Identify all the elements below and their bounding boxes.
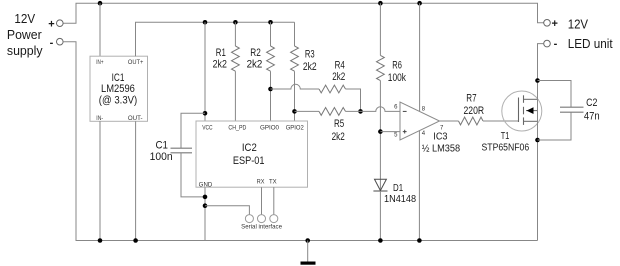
svg-text:(@ 3.3V): (@ 3.3V) <box>99 95 137 107</box>
svg-text:Power: Power <box>7 27 42 42</box>
wire op-amp output to R7 <box>440 120 459 122</box>
svg-text:LM2596: LM2596 <box>101 83 135 95</box>
T1 source stub <box>524 120 538 122</box>
label R6 100k <box>388 60 406 85</box>
diode D1 1N4148 <box>373 179 387 191</box>
svg-text:ESP-01: ESP-01 <box>233 155 265 167</box>
svg-text:2k2: 2k2 <box>332 131 345 143</box>
svg-text:2k2: 2k2 <box>247 59 263 71</box>
op-amp - input mark <box>403 110 407 112</box>
T1 body stub with arrow <box>526 110 538 112</box>
node junction C1 branch <box>203 111 208 116</box>
svg-text:47n: 47n <box>584 111 600 123</box>
wire C2 top lead <box>538 81 572 108</box>
label R1 2k2 <box>213 47 227 71</box>
node junction drain / C2 top <box>535 78 540 83</box>
node junction top bus op-amp V+ <box>417 1 422 6</box>
svg-text:C1: C1 <box>156 140 169 152</box>
resistor R5 <box>319 108 346 116</box>
label R7 220R <box>464 93 485 118</box>
svg-text:OUT+: OUT+ <box>128 60 144 66</box>
svg-text:100k: 100k <box>388 72 406 84</box>
node junction ground bus IN- <box>98 238 103 243</box>
terminal serial TX <box>270 215 278 223</box>
svg-text:IN-: IN- <box>96 116 103 122</box>
label 12V Power supply <box>7 11 43 58</box>
svg-text:½ LM358: ½ LM358 <box>422 143 461 154</box>
wire - LED terminal down to drain <box>538 44 544 241</box>
terminal - (LED unit) <box>544 40 551 47</box>
terminal serial gnd <box>245 215 253 223</box>
label D1 1N4148 <box>384 183 417 205</box>
IC2 ESP-01 box <box>196 121 308 188</box>
wire R4 right lead down to R5 junction <box>346 89 361 111</box>
svg-text:Serial interface: Serial interface <box>241 225 282 231</box>
svg-text:RX: RX <box>257 180 265 186</box>
resistor R1 <box>232 22 240 121</box>
terminal - (power supply) <box>57 38 64 45</box>
node junction top bus IN+ <box>98 1 103 6</box>
svg-text:R5: R5 <box>334 118 344 130</box>
svg-text:R4: R4 <box>335 59 345 71</box>
wire C2 bottom lead <box>538 112 572 140</box>
resistor R4 <box>319 85 346 93</box>
svg-text:IC2: IC2 <box>242 142 257 154</box>
label IC3 1/2 LM358 <box>422 131 461 154</box>
wire C1 top lead <box>181 113 205 148</box>
wire serial gnd branch <box>205 206 249 215</box>
wire OUT+ 3.3V rail <box>136 22 295 56</box>
svg-text:12V: 12V <box>14 11 35 26</box>
svg-text:C2: C2 <box>586 97 597 109</box>
svg-text:R1: R1 <box>216 47 226 59</box>
wire VCC drop <box>204 22 206 121</box>
svg-text:GND: GND <box>199 182 213 188</box>
terminal serial RX <box>258 215 266 223</box>
svg-text:R6: R6 <box>392 60 402 72</box>
label T1 STP65NF06 <box>482 131 530 154</box>
wire op-amp V+ (pin 8) <box>419 3 421 111</box>
svg-text:R7: R7 <box>466 93 476 105</box>
node junction ground bus op-amp pin4 <box>417 238 422 243</box>
svg-text:+: + <box>48 19 54 31</box>
node junction top bus R6 <box>378 1 383 6</box>
svg-text:IC1: IC1 <box>112 72 125 84</box>
label C1 100n <box>150 140 173 164</box>
T1 drain stub <box>524 98 538 100</box>
wire IN- to ground bus <box>99 121 101 240</box>
terminal + (LED unit) <box>544 20 551 27</box>
wire C1 bottom lead <box>181 153 205 197</box>
svg-text:D1: D1 <box>393 183 403 194</box>
svg-text:IN+: IN+ <box>96 60 104 66</box>
wire op-amp V- (pin 4) to ground bus <box>418 131 420 241</box>
node junction ground bus earth <box>305 238 310 243</box>
wire GND pin to ground bus <box>204 187 206 240</box>
node junction R2 / R4 branch <box>268 87 273 92</box>
node junction R6 / op-amp + input <box>378 129 383 134</box>
svg-text:GPIO2: GPIO2 <box>286 126 305 132</box>
wire D1 cathode to ground bus <box>379 191 381 241</box>
label R3 2k2 <box>303 49 317 73</box>
label C2 47n <box>584 97 600 123</box>
svg-text:2k2: 2k2 <box>303 61 317 73</box>
resistor R2 <box>267 22 275 121</box>
svg-text:LED unit: LED unit <box>568 36 613 51</box>
resistor R7 <box>459 117 484 125</box>
svg-text:220R: 220R <box>464 105 485 117</box>
wire top 12V bus <box>63 3 544 23</box>
node junction C1 return <box>203 195 208 200</box>
capacitor C2 <box>560 107 584 112</box>
node junction rail VCC <box>203 20 208 25</box>
svg-text:-: - <box>554 38 558 50</box>
svg-text:CH_PD: CH_PD <box>228 126 247 132</box>
svg-text:100n: 100n <box>150 151 173 163</box>
wire R5 left lead <box>295 110 320 112</box>
svg-text:-: - <box>50 37 54 49</box>
terminal + (power supply) <box>57 20 64 27</box>
svg-text:STP65NF06: STP65NF06 <box>482 143 530 154</box>
wire IN+ drop <box>99 3 101 56</box>
node junction serial gnd branch <box>203 203 208 208</box>
wire R4 left lead with hop over R3 wire <box>271 84 320 89</box>
op-amp + input mark <box>403 130 407 134</box>
svg-text:GPIO0: GPIO0 <box>260 126 280 132</box>
svg-text:IC3: IC3 <box>433 131 448 142</box>
wire TX pin <box>273 187 275 214</box>
svg-text:TX: TX <box>269 180 277 186</box>
node junction ground bus OUT- <box>133 238 138 243</box>
svg-text:supply: supply <box>7 43 43 58</box>
node junction rail R2 <box>268 20 273 25</box>
capacitor C1 <box>171 148 193 153</box>
resistor R3 <box>291 22 299 121</box>
wire OUT- to ground bus <box>135 121 137 240</box>
op-amp IC3 <box>394 102 444 140</box>
node junction R3 / R5 branch <box>292 109 297 114</box>
wire R7 to gate <box>483 120 519 122</box>
ground symbol <box>301 241 316 265</box>
svg-text:R2: R2 <box>250 47 260 59</box>
wire - terminal to ground bus <box>63 42 537 241</box>
svg-text:12V: 12V <box>568 17 589 32</box>
label R2 2k2 <box>247 47 263 71</box>
IC1 LM2596 box <box>90 56 148 122</box>
resistor R6 <box>377 3 385 179</box>
svg-text:+: + <box>551 18 557 30</box>
label R4 2k2 <box>332 59 345 83</box>
T1 gate bar <box>518 98 520 123</box>
svg-text:OUT-: OUT- <box>128 116 143 122</box>
svg-text:1N4148: 1N4148 <box>384 194 417 205</box>
svg-text:2k2: 2k2 <box>213 59 227 71</box>
svg-text:R3: R3 <box>305 49 315 61</box>
svg-text:T1: T1 <box>501 131 510 142</box>
node junction ground bus D1 <box>378 238 383 243</box>
label R5 2k2 <box>332 118 345 143</box>
transistor T1 circle <box>502 91 542 131</box>
wire op-amp + input branch <box>380 131 400 133</box>
T1 channel segments <box>523 95 525 125</box>
svg-text:2k2: 2k2 <box>332 71 345 83</box>
node junction R4/R5 <box>358 109 363 114</box>
node junction rail R1 <box>233 20 238 25</box>
node junction source / C2 bottom <box>535 138 540 143</box>
wire R5 to op-amp with hop over R6 wire <box>346 107 401 112</box>
wire RX pin <box>261 187 263 214</box>
svg-text:VCC: VCC <box>202 125 213 131</box>
